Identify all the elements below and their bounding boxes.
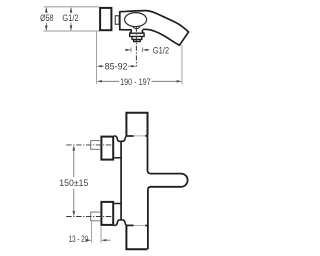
svg-text:Ø58: Ø58 xyxy=(40,13,53,24)
outlet center line (dash-dot) xyxy=(135,27,137,67)
svg-text:G1/2: G1/2 xyxy=(153,45,169,56)
wall extension line xyxy=(96,32,98,84)
body left edge xyxy=(120,141,122,220)
body bottom edge left of outlet xyxy=(119,29,132,31)
svg-text:150±15: 150±15 xyxy=(59,178,88,189)
upper center line (dash-dot) xyxy=(66,144,114,146)
dimension 190-197 xyxy=(97,80,182,82)
dimension line D58 xyxy=(45,7,48,31)
G1/2 outlet thread dimension xyxy=(125,48,150,53)
wall flange (side view) xyxy=(100,8,111,30)
lower neck upper edge xyxy=(114,203,121,205)
upper neck cup xyxy=(114,136,126,141)
cartridge dome ellipse xyxy=(125,13,147,27)
outlet bell shoulder arc xyxy=(133,27,140,29)
extension line top (flange top) xyxy=(44,6,100,8)
dimension 85-92 xyxy=(97,65,137,67)
upper union pipe xyxy=(91,141,101,150)
upper neck lower edge xyxy=(114,157,121,159)
lower union pipe xyxy=(91,212,101,221)
spout end extension line xyxy=(181,45,183,84)
union neck square xyxy=(115,16,119,25)
extension line bottom (flange bottom) xyxy=(44,30,100,32)
body right edge lower xyxy=(147,190,149,249)
body right edge upper xyxy=(147,113,149,171)
dimension 150+-15 xyxy=(73,145,76,217)
svg-text:G1/2: G1/2 xyxy=(62,13,78,24)
lower neck cup xyxy=(114,220,126,225)
lower center line (dash-dot) xyxy=(66,216,114,218)
13-20 extension lines xyxy=(90,222,92,243)
svg-text:85-92: 85-92 xyxy=(105,61,128,72)
upper union escutcheon (plan) xyxy=(101,137,113,160)
spout (plan view) with rounded end xyxy=(148,171,188,190)
svg-text:13 - 20: 13 - 20 xyxy=(69,234,88,245)
svg-text:190 - 197: 190 - 197 xyxy=(120,77,151,88)
upper handle (plan) xyxy=(126,113,148,136)
lower handle (plan) xyxy=(126,225,148,249)
dimension 13-20 xyxy=(86,239,111,241)
lower union escutcheon (plan) xyxy=(101,202,113,225)
dimension line G1/2 inlet xyxy=(70,7,73,31)
faucet body and spout outline xyxy=(120,11,189,46)
